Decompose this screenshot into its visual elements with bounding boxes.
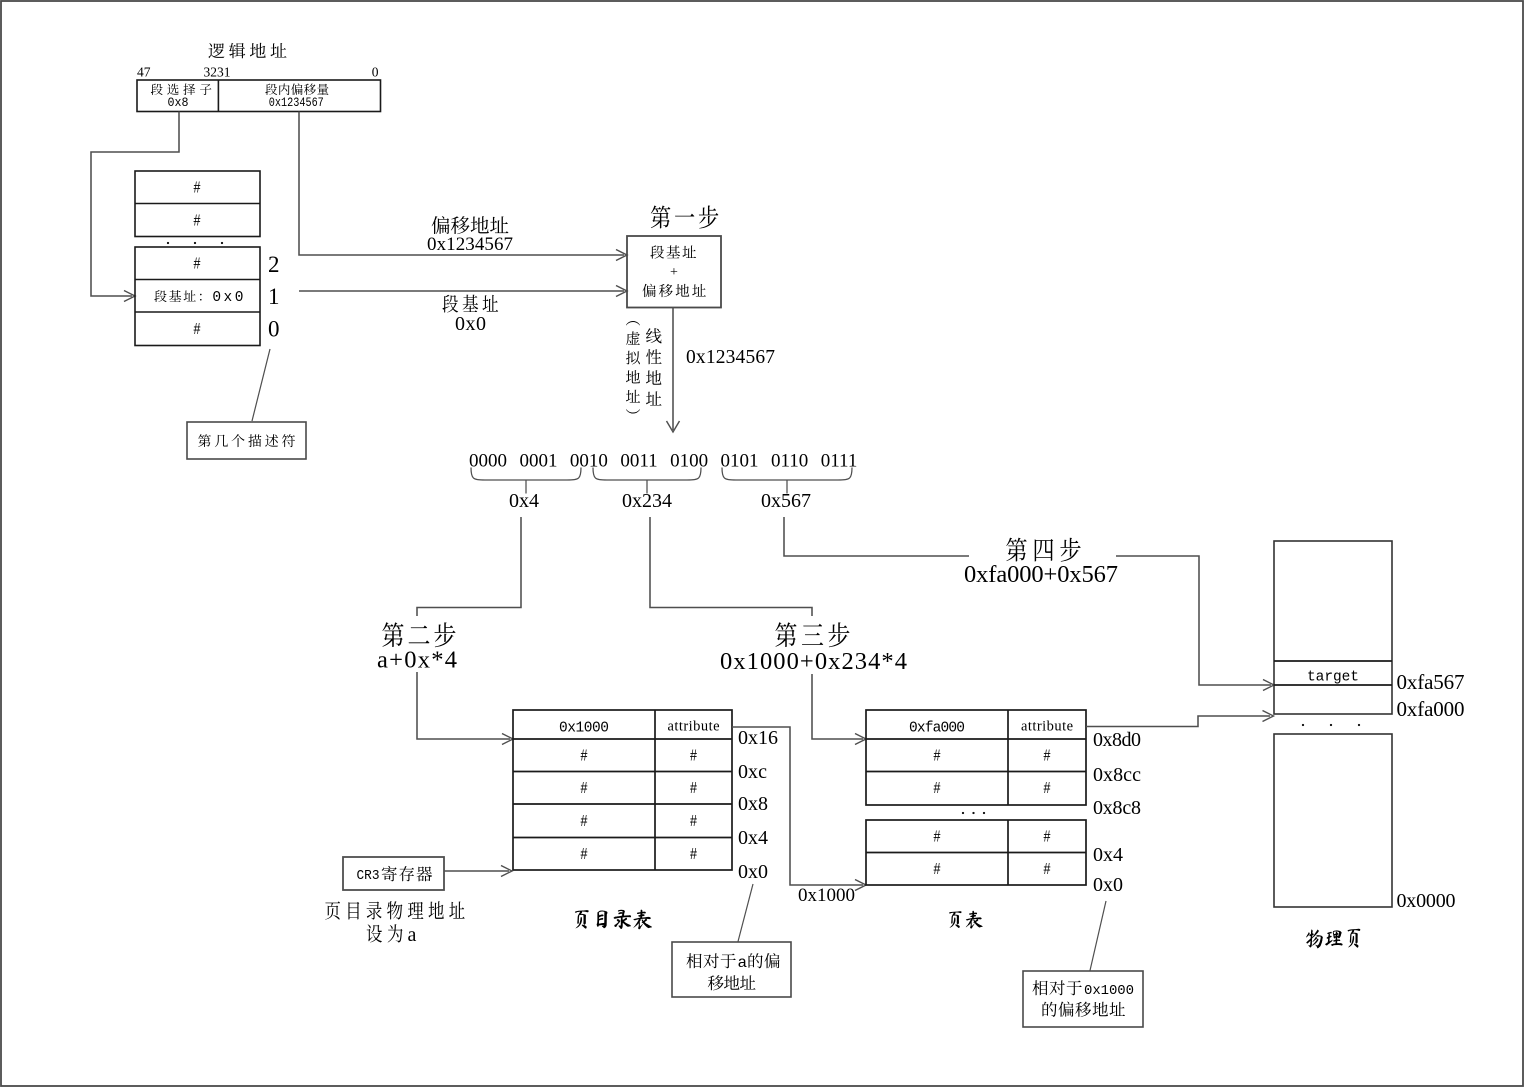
svg-text:2: 2 (268, 252, 280, 277)
svg-text:a: a (738, 954, 748, 972)
svg-text:0xfa000: 0xfa000 (909, 721, 965, 737)
svg-text:#: # (193, 321, 201, 340)
svg-text:0x4: 0x4 (1093, 844, 1123, 866)
svg-text:3231: 3231 (204, 65, 231, 80)
svg-text:0x1000: 0x1000 (1084, 983, 1134, 999)
svg-text:0x16: 0x16 (738, 727, 778, 749)
svg-text:0x0: 0x0 (455, 313, 486, 335)
svg-text:0x567: 0x567 (761, 490, 811, 512)
svg-text:0x8c8: 0x8c8 (1093, 797, 1141, 819)
svg-text:0x8cc: 0x8cc (1093, 764, 1141, 786)
svg-text:0x1234567: 0x1234567 (269, 95, 324, 110)
svg-text:0x4: 0x4 (509, 490, 539, 512)
svg-text:a+0x*4: a+0x*4 (377, 647, 457, 674)
svg-text:0x1234567: 0x1234567 (427, 234, 513, 255)
svg-text:0000 0001 0010 0011 0100 0101: 0000 0001 0010 0011 0100 0101 0110 0111 (469, 451, 857, 472)
svg-text:0x0: 0x0 (212, 290, 243, 306)
svg-text:#: # (690, 846, 698, 865)
svg-text:target: target (1307, 670, 1359, 686)
svg-text:attribute: attribute (668, 719, 720, 735)
svg-text:0x8: 0x8 (738, 793, 768, 815)
svg-text:#: # (933, 748, 941, 767)
svg-text:0x4: 0x4 (738, 827, 768, 849)
svg-text:#: # (580, 748, 588, 767)
svg-text:#: # (580, 846, 588, 865)
svg-text:47: 47 (137, 65, 151, 80)
svg-text:0x1000+0x234*4: 0x1000+0x234*4 (720, 648, 907, 675)
svg-text:0x1000: 0x1000 (559, 721, 609, 737)
svg-text:0x234: 0x234 (622, 490, 672, 512)
svg-text:attribute: attribute (1021, 719, 1073, 735)
svg-text:#: # (933, 861, 941, 880)
svg-text:#: # (1043, 748, 1051, 767)
svg-text:1: 1 (268, 284, 280, 309)
svg-text:0xfa000+0x567: 0xfa000+0x567 (964, 561, 1118, 588)
svg-text:#: # (690, 813, 698, 832)
svg-text:#: # (690, 748, 698, 767)
svg-text:0x8: 0x8 (168, 95, 189, 110)
svg-text:0x8d0: 0x8d0 (1093, 729, 1141, 751)
svg-text:0x1000: 0x1000 (798, 885, 855, 906)
svg-text:#: # (193, 256, 201, 275)
svg-text:0x0: 0x0 (738, 861, 768, 883)
svg-text:a: a (408, 924, 417, 946)
svg-text:CR3: CR3 (357, 868, 380, 884)
svg-text:#: # (1043, 780, 1051, 799)
svg-text:0xc: 0xc (738, 761, 767, 783)
svg-text:0x1234567: 0x1234567 (686, 347, 775, 368)
svg-text:#: # (1043, 829, 1051, 848)
svg-text:#: # (933, 780, 941, 799)
svg-text:#: # (690, 780, 698, 799)
svg-text:#: # (1043, 861, 1051, 880)
svg-text:0xfa000: 0xfa000 (1397, 697, 1465, 721)
svg-text:+: + (670, 265, 678, 280)
svg-text:0x0: 0x0 (1093, 874, 1123, 896)
svg-text:0: 0 (268, 317, 280, 342)
svg-text:#: # (193, 180, 201, 199)
svg-text:#: # (580, 813, 588, 832)
svg-text:0: 0 (372, 65, 379, 80)
svg-text:#: # (933, 829, 941, 848)
svg-text:#: # (193, 213, 201, 232)
svg-text:#: # (580, 780, 588, 799)
svg-text:0xfa567: 0xfa567 (1397, 670, 1465, 694)
svg-text:0x0000: 0x0000 (1397, 890, 1456, 912)
